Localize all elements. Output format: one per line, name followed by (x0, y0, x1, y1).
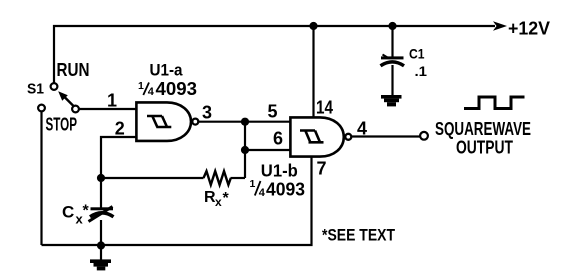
wire STOP contact drop to bottom rail (40, 112, 42, 246)
op-amp U1-a NAND gate body (136, 102, 191, 140)
U1-b schmitt hysteresis symbol (300, 131, 324, 143)
wire node vertical between pin5 node and Rx corner (244, 122, 246, 178)
svg-text:*: * (223, 190, 230, 207)
svg-text:4093: 4093 (156, 78, 198, 99)
node junction Cx top (97, 174, 105, 182)
svg-text:7: 7 (317, 159, 327, 179)
wire pin 2 stub and drop to node (101, 137, 136, 178)
svg-text:STOP: STOP (46, 115, 78, 135)
capacitor Cx top plate (91, 207, 114, 210)
U1-b output bubble (345, 134, 351, 140)
wire Cx top lead (100, 178, 102, 208)
switch RUN contact circle (51, 83, 58, 90)
svg-text:1: 1 (250, 178, 256, 190)
wire U1-b output to terminal (352, 135, 421, 137)
node junction pin6 (241, 146, 249, 154)
switch STOP contact circle (38, 105, 45, 112)
svg-text:1: 1 (138, 80, 144, 92)
wire pin14 drop from rail to U1-b top (312, 26, 314, 117)
wire U1-a output to node and pin 5 (198, 121, 290, 123)
node junction on rail at pin14 (309, 22, 317, 30)
switch pole contact circle (72, 106, 79, 113)
node junction on rail at C1 (388, 22, 396, 30)
svg-text:OUTPUT: OUTPUT (456, 137, 513, 157)
label 1/4 4093 (U1-b) (250, 178, 306, 199)
svg-text:C: C (62, 203, 74, 222)
wire top +12V rail (54, 26, 495, 83)
capacitor C1 top plate (381, 56, 404, 59)
svg-text:S1: S1 (27, 81, 44, 98)
svg-text:SQUAREWAVE: SQUAREWAVE (435, 119, 531, 139)
output terminal circle (420, 132, 428, 140)
svg-text:4: 4 (148, 86, 155, 98)
svg-text:6: 6 (273, 129, 283, 149)
label Rx* (204, 189, 230, 209)
label 1/4 4093 (U1-a) (138, 78, 197, 99)
resistor Rx zigzag (204, 171, 231, 185)
svg-text:*: * (83, 203, 90, 220)
capacitor C1 curved plate (381, 62, 405, 66)
svg-text:5: 5 (268, 102, 278, 122)
wire Cx node to resistor (101, 177, 204, 179)
svg-text:x: x (215, 195, 222, 209)
wire C1 to ground (391, 65, 393, 96)
svg-text:4093: 4093 (266, 178, 305, 199)
wire Cx bottom lead (100, 220, 102, 246)
svg-text:RUN: RUN (57, 60, 90, 80)
ground symbol below Cx (90, 259, 111, 270)
svg-text:*SEE TEXT: *SEE TEXT (322, 226, 395, 245)
svg-text:C1: C1 (409, 46, 425, 62)
wire pin 6 stub (245, 149, 290, 151)
U1-a output bubble (192, 119, 198, 125)
wire resistor right end to corner (231, 177, 246, 179)
U1-a schmitt hysteresis symbol (147, 116, 171, 127)
squarewave icon (464, 97, 525, 109)
ground symbol below C1 (381, 95, 402, 106)
wire bottom ground rail (42, 157, 312, 245)
capacitor C1 polarity tick (383, 55, 388, 58)
svg-text:2: 2 (115, 119, 125, 139)
svg-text:14: 14 (316, 98, 333, 118)
+12V arrowhead (493, 21, 507, 31)
wire switch pole to pin 1 of U1-a (79, 108, 136, 110)
label Cx* (62, 203, 90, 227)
svg-text:U1-b: U1-b (261, 160, 298, 180)
svg-text:1: 1 (107, 91, 117, 111)
op-amp U1-b NAND gate body (290, 117, 343, 156)
svg-text:4: 4 (259, 187, 266, 199)
capacitor Cx variable arrow (89, 207, 113, 222)
svg-text:+12V: +12V (508, 19, 550, 39)
svg-text:4: 4 (357, 119, 367, 139)
wire Cx ground stem (100, 246, 102, 260)
svg-text:3: 3 (202, 103, 212, 123)
node junction pin5 (241, 118, 249, 126)
switch S1 arm with arrowhead (RUN position) (58, 91, 74, 106)
capacitor Cx curved plate (90, 213, 114, 217)
wire C1 drop from rail (391, 26, 393, 57)
node junction Cx bottom rail (97, 241, 105, 249)
svg-text:.1: .1 (415, 63, 428, 79)
svg-text:U1-a: U1-a (150, 62, 184, 80)
